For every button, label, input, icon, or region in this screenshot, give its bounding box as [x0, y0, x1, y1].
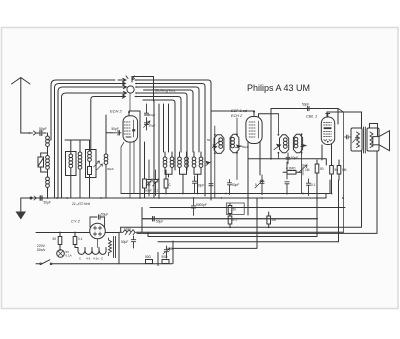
wire riser CBL cathode: [322, 144, 332, 160]
svg-text:1M: 1M: [305, 168, 310, 172]
wire switch to ECH2 grid: [129, 93, 131, 111]
resistor R1 under ECH2: [143, 142, 151, 198]
title Philips A 43 UM: [247, 83, 310, 93]
capacitor 50uF on chassis bus: [30, 196, 51, 205]
diode detector capacitor: [286, 153, 298, 164]
svg-text:50: 50: [207, 138, 211, 142]
IF transformer T2 coils: [230, 118, 242, 180]
rectifier tube CY2: [90, 223, 106, 247]
coil osc section under ECH2: [104, 115, 108, 198]
tube ECH2 label: [110, 109, 123, 114]
capacitor 50pF antenna: [37, 127, 47, 136]
wire riser ECF anode: [259, 142, 261, 176]
wire screen CBL1 riser: [338, 109, 344, 233]
resistor box bottom 1: [145, 255, 153, 264]
wire riser ECF cathode: [247, 143, 249, 216]
svg-text:5000pF: 5000pF: [196, 203, 207, 207]
svg-text:50: 50: [320, 167, 324, 171]
wire CBL1 grid line: [271, 109, 338, 159]
mains line y232.5: [36, 232, 119, 234]
speaker LS: [367, 128, 390, 151]
resistor diag at 258: [255, 180, 263, 188]
svg-text:1M: 1M: [342, 168, 347, 172]
junction dots on chassis: [56, 158, 344, 199]
svg-text:50pF: 50pF: [291, 156, 298, 160]
risers mid right: [329, 180, 331, 194]
capacitor under ECF1: [242, 145, 249, 149]
output transformer T4: [345, 127, 366, 153]
left nested bus wires from switch: [48, 80, 116, 198]
IF transformer T3 coils: [274, 114, 307, 194]
wire plate CBL1 to transformer: [327, 112, 378, 137]
svg-text:50µF: 50µF: [44, 201, 51, 205]
wire riser choke: [141, 219, 143, 233]
cap 5000pF at 193.6: [191, 197, 206, 215]
resistor in mains: [53, 232, 62, 251]
capacitor across CY2: [90, 213, 108, 228]
IF transformer T1 coils: [163, 152, 211, 193]
resistor vertical 329-334: [330, 160, 339, 180]
resistor vertical 315-319: [315, 160, 324, 180]
capacitor at 229: [227, 180, 239, 195]
svg-text:0.1A: 0.1A: [66, 254, 72, 258]
svg-text:50c/s: 50c/s: [37, 248, 45, 252]
right nested bus wires from switch: [143, 80, 213, 200]
grid capacitor 50pF at ECH2: [106, 127, 121, 145]
svg-text:50Ω: 50Ω: [145, 255, 152, 259]
wire ECF1 grid cap: [211, 110, 254, 112]
IF transformer T2 primary box: [207, 126, 224, 198]
electrolytic cap 50uF A: [121, 236, 136, 248]
resistor box at 268: [267, 212, 276, 228]
capacitor 316-323 column2: [306, 179, 315, 196]
wire ECF1 plate to CBL grid: [259, 114, 279, 117]
oscillator coil L3: [78, 140, 82, 198]
resistor R2 under ECH2: [164, 170, 171, 194]
potentiometer volume: [299, 164, 310, 175]
tube ECF1: [246, 110, 262, 143]
bus wire y193.5: [121, 193, 330, 195]
svg-text:50µF: 50µF: [156, 220, 163, 224]
bus wire y198 chassis: [21, 194, 326, 199]
resistor 0.5M horizontal: [283, 167, 301, 175]
electrolytic cap 50uF B: [163, 246, 173, 258]
svg-text:50: 50: [233, 208, 237, 212]
svg-text:30pF: 30pF: [149, 124, 156, 128]
svg-text:50: 50: [335, 168, 339, 172]
wire detector line y157.5: [249, 159, 327, 165]
svg-text:ECH 2: ECH 2: [110, 109, 123, 114]
svg-text:1100: 1100: [124, 228, 131, 232]
antenna: [12, 78, 31, 134]
svg-text:0.1: 0.1: [154, 189, 159, 193]
wire antenna lead: [21, 132, 29, 134]
label CY2: [71, 219, 81, 224]
resistor vertical 337-341: [337, 160, 347, 180]
wire anode riser x140: [139, 111, 141, 198]
wire riser resistors to bus: [317, 180, 339, 242]
power switch: [36, 260, 172, 265]
svg-text:Philips A 43 UM: Philips A 43 UM: [247, 83, 310, 93]
oscillator coil L2: [66, 140, 77, 198]
pilot lamp: [57, 250, 72, 258]
label Stellung kurz: [155, 89, 176, 93]
label CBL1: [306, 114, 317, 119]
svg-text:50pF: 50pF: [232, 183, 239, 187]
resistor box pair right of CY2: [228, 204, 237, 229]
capacitor at 262: [255, 175, 264, 195]
capacitor at 287: [285, 162, 289, 194]
svg-text:50pF: 50pF: [302, 103, 309, 107]
svg-text:50pF: 50pF: [112, 127, 119, 131]
trimmer capacitor pair under ECH2: [146, 160, 159, 196]
wire tap line y140: [65, 139, 90, 141]
svg-text:4·5: 4·5: [86, 257, 91, 261]
heater winding: [75, 248, 106, 261]
capacitor grid CBL1: [302, 103, 313, 111]
svg-text:50pF: 50pF: [145, 189, 152, 193]
frame box around supply resistors: [226, 203, 244, 214]
svg-text:50pF: 50pF: [149, 113, 156, 117]
label 21-472 kHz: [71, 202, 90, 206]
osc grid capacitor and trimmer: [144, 104, 156, 130]
resistor box bottom 2: [158, 241, 173, 266]
label ECF1/ECH2: [231, 109, 248, 118]
choke coil: [119, 228, 137, 235]
resistor cap in mains 2: [73, 232, 82, 248]
bottom bus wires right staircase: [121, 151, 377, 248]
svg-text:50µF: 50µF: [121, 240, 128, 244]
bus wire y207.5: [150, 207, 345, 209]
svg-text:CBL 1: CBL 1: [306, 114, 317, 119]
cap on line 218.6: [142, 208, 318, 224]
ground arrow left: [16, 198, 27, 220]
svg-text:CY 2: CY 2: [71, 219, 81, 224]
svg-text:4·2v: 4·2v: [93, 257, 99, 261]
svg-text:30pF: 30pF: [107, 167, 114, 171]
switch frame box: [132, 77, 154, 102]
trimmer box left of L1: [38, 153, 48, 172]
svg-text:50: 50: [169, 247, 173, 251]
power transformer: [109, 233, 120, 264]
coil L1 antenna coil column: [46, 133, 50, 198]
svg-text:ECH 2: ECH 2: [231, 114, 243, 118]
wire ECH2 top cap: [129, 110, 140, 112]
label 220V: [37, 244, 46, 252]
svg-text:50pF: 50pF: [197, 184, 204, 188]
tube ECH2: [121, 111, 138, 198]
svg-text:0.1: 0.1: [311, 183, 316, 187]
svg-text:50: 50: [53, 237, 57, 241]
capacitor 50pF at 194.5: [145, 176, 204, 193]
svg-text:50µF: 50µF: [101, 213, 108, 217]
oscillator coil L4 with padder box: [86, 140, 115, 198]
svg-text:0.1: 0.1: [78, 237, 83, 241]
rotary switch S1: [115, 76, 144, 98]
tube CBL1: [321, 114, 334, 145]
svg-text:0.2MΩ: 0.2MΩ: [286, 167, 296, 171]
svg-text:21–472 kHz: 21–472 kHz: [71, 202, 90, 206]
svg-text:50Ω: 50Ω: [162, 255, 169, 259]
antenna plug: [28, 131, 36, 135]
